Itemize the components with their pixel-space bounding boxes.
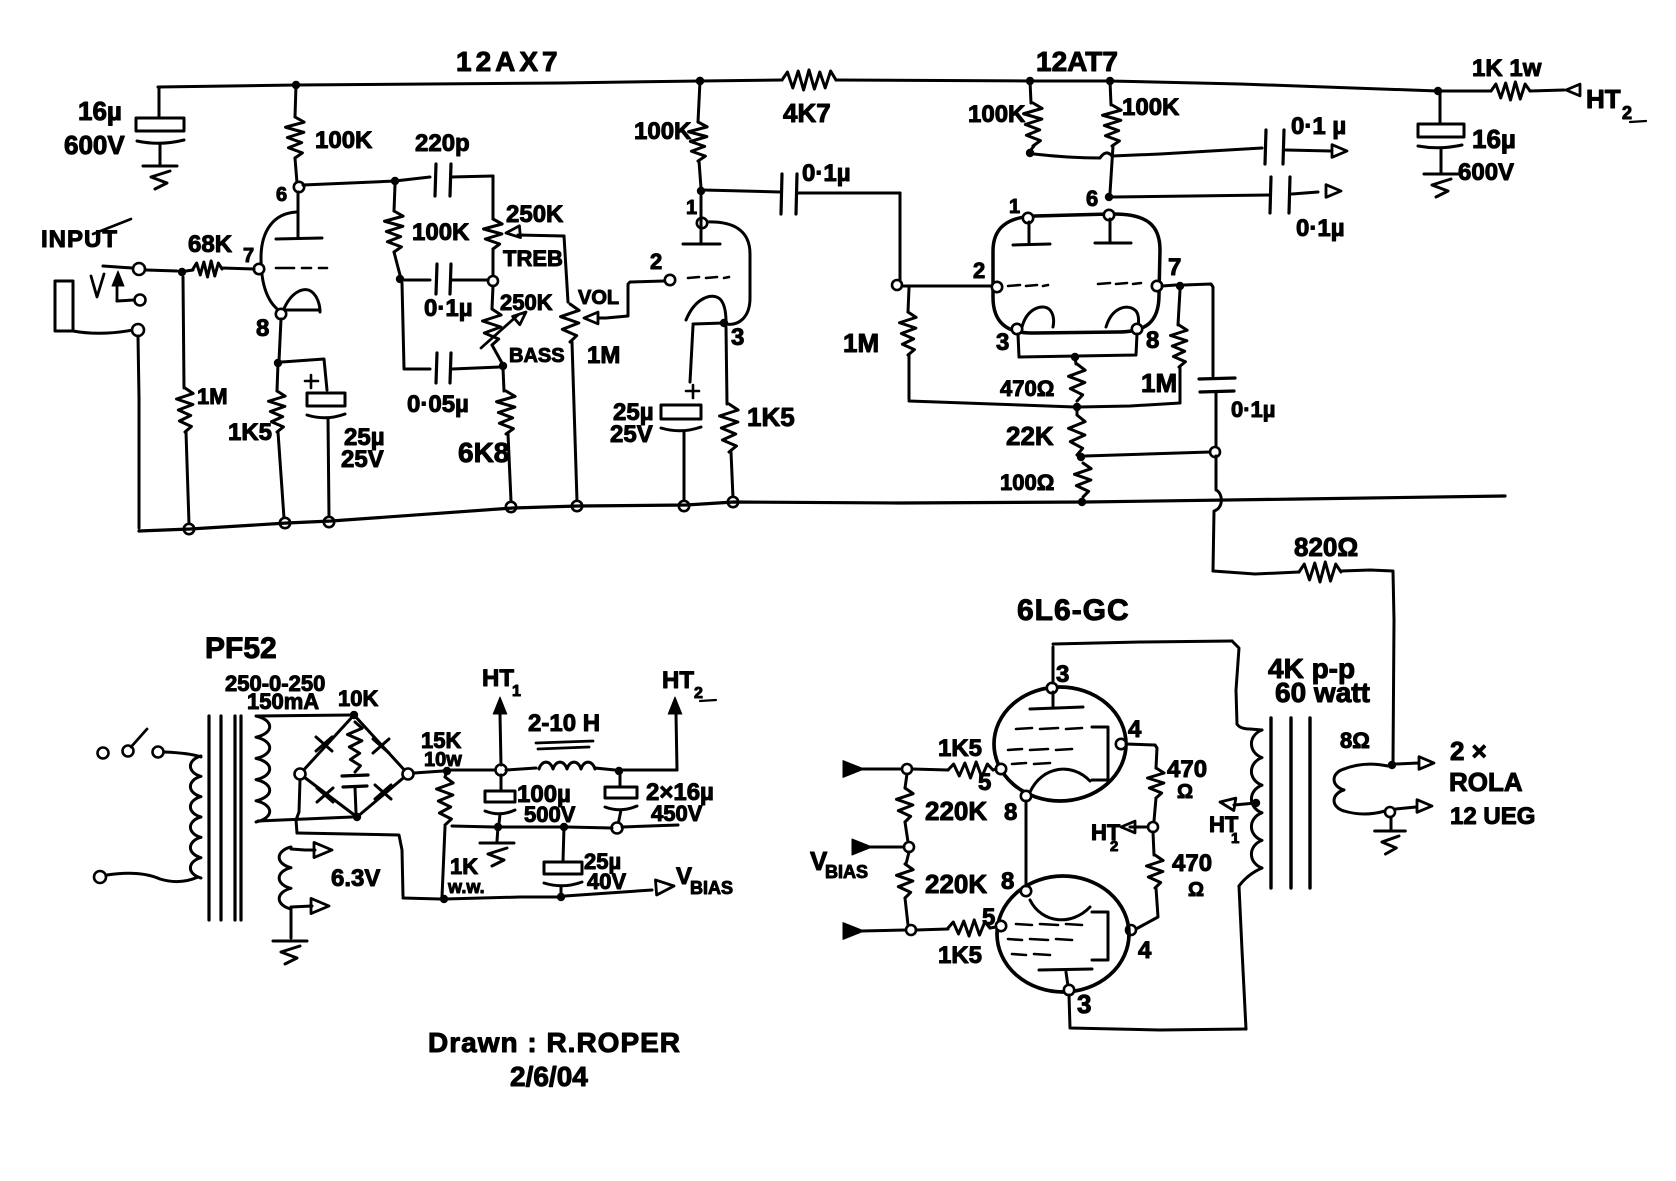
svg-text:HT: HT [662, 667, 694, 694]
svg-text:22K: 22K [1006, 421, 1054, 451]
svg-text:1: 1 [1009, 196, 1020, 218]
svg-text:HT: HT [482, 665, 514, 692]
svg-text:2-10 H: 2-10 H [528, 710, 600, 737]
svg-text:0·1µ: 0·1µ [1296, 215, 1345, 242]
svg-text:2: 2 [1622, 103, 1632, 123]
svg-text:0·05µ: 0·05µ [407, 391, 469, 418]
svg-text:1M: 1M [197, 384, 228, 409]
svg-text:100Ω: 100Ω [1000, 470, 1054, 495]
svg-text:VOL: VOL [578, 287, 619, 309]
svg-text:6: 6 [1086, 186, 1098, 211]
svg-text:220K: 220K [925, 796, 987, 826]
svg-text:Ω: Ω [1177, 781, 1193, 803]
svg-text:1K5: 1K5 [228, 419, 272, 446]
svg-text:0·1 µ: 0·1 µ [1291, 113, 1346, 140]
svg-text:250K: 250K [506, 201, 564, 228]
svg-text:BASS: BASS [509, 345, 565, 367]
svg-text:60 watt: 60 watt [1275, 677, 1370, 708]
svg-text:2/6/04: 2/6/04 [510, 1061, 588, 1092]
svg-text:600V: 600V [1458, 159, 1514, 186]
svg-text:1K 1w: 1K 1w [1472, 55, 1542, 82]
svg-text:1: 1 [512, 683, 521, 700]
svg-text:470Ω: 470Ω [1000, 376, 1054, 401]
svg-text:4K7: 4K7 [783, 98, 831, 128]
svg-text:25V: 25V [610, 421, 653, 448]
svg-text:1M: 1M [843, 328, 879, 358]
svg-text:8: 8 [256, 315, 269, 342]
svg-text:1: 1 [686, 197, 697, 219]
svg-text:HT: HT [1586, 84, 1621, 114]
svg-text:TREB: TREB [503, 246, 563, 271]
svg-text:12AX7: 12AX7 [456, 46, 562, 77]
svg-text:Drawn : R.ROPER: Drawn : R.ROPER [428, 1027, 681, 1058]
svg-text:68K: 68K [188, 231, 233, 258]
svg-text:600V: 600V [64, 130, 125, 160]
svg-text:40V: 40V [587, 869, 626, 894]
svg-text:25V: 25V [341, 446, 384, 473]
svg-text:1K5: 1K5 [747, 402, 795, 432]
svg-text:16µ: 16µ [78, 96, 122, 126]
svg-text:100K: 100K [315, 127, 373, 154]
svg-text:6L6-GC: 6L6-GC [1017, 594, 1130, 627]
svg-text:100K: 100K [634, 118, 692, 145]
svg-text:10w: 10w [424, 749, 462, 771]
svg-text:2: 2 [1110, 838, 1118, 855]
svg-text:1M: 1M [587, 342, 620, 369]
svg-text:w.w.: w.w. [447, 877, 485, 897]
svg-text:4: 4 [1138, 937, 1152, 964]
svg-text:0·1µ: 0·1µ [424, 295, 473, 322]
svg-text:Ω: Ω [1188, 879, 1204, 901]
svg-text:2 ×: 2 × [1450, 736, 1487, 766]
svg-text:500V: 500V [524, 802, 576, 827]
svg-text:1K5: 1K5 [938, 735, 982, 762]
svg-text:1M: 1M [1141, 368, 1177, 398]
svg-text:250K: 250K [500, 290, 553, 315]
svg-text:470: 470 [1172, 850, 1212, 877]
svg-text:3: 3 [996, 329, 1009, 356]
svg-text:470: 470 [1167, 756, 1207, 783]
svg-text:2: 2 [694, 685, 703, 702]
svg-text:BIAS: BIAS [690, 878, 733, 898]
svg-text:8: 8 [1001, 868, 1014, 895]
svg-text:12 UEG: 12 UEG [1450, 803, 1535, 830]
svg-text:220K: 220K [925, 869, 987, 899]
svg-text:100K: 100K [412, 219, 470, 246]
svg-text:6.3V: 6.3V [331, 865, 380, 892]
svg-text:2: 2 [650, 249, 662, 274]
svg-text:4: 4 [1128, 716, 1142, 743]
svg-text:PF52: PF52 [205, 632, 277, 665]
svg-text:6: 6 [276, 184, 287, 206]
svg-text:BIAS: BIAS [825, 862, 868, 882]
svg-text:8: 8 [1004, 799, 1017, 826]
svg-text:6K8: 6K8 [458, 437, 509, 468]
svg-text:0·1µ: 0·1µ [802, 160, 851, 187]
svg-text:220p: 220p [415, 130, 470, 157]
svg-text:450V: 450V [651, 801, 703, 826]
svg-text:8: 8 [1146, 327, 1159, 354]
svg-text:7: 7 [243, 245, 254, 267]
svg-text:3: 3 [731, 324, 744, 351]
svg-text:820Ω: 820Ω [1294, 532, 1358, 562]
svg-text:12AT7: 12AT7 [1036, 46, 1118, 77]
svg-text:100K: 100K [968, 101, 1026, 128]
svg-text:1: 1 [1231, 830, 1239, 847]
svg-text:1K5: 1K5 [938, 942, 982, 969]
svg-text:100K: 100K [1122, 94, 1180, 121]
svg-text:16µ: 16µ [1472, 124, 1516, 154]
svg-text:8Ω: 8Ω [1340, 728, 1370, 753]
svg-text:2: 2 [973, 258, 985, 283]
svg-text:1K: 1K [450, 854, 478, 879]
svg-text:10K: 10K [338, 686, 378, 711]
svg-text:150mA: 150mA [247, 689, 319, 714]
svg-text:7: 7 [1168, 254, 1181, 281]
svg-text:3: 3 [1056, 661, 1069, 688]
svg-text:3: 3 [1077, 989, 1091, 1019]
svg-text:ROLA: ROLA [1449, 767, 1523, 797]
svg-text:0·1µ: 0·1µ [1231, 397, 1275, 422]
